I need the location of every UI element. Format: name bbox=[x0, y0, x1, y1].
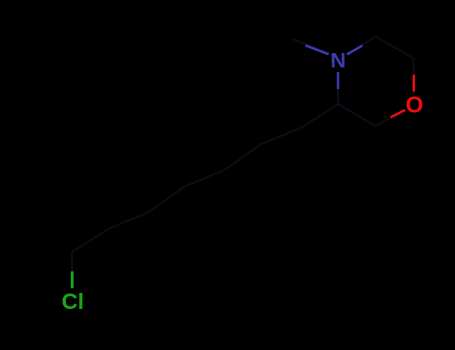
svg-text:N: N bbox=[330, 48, 346, 72]
svg-text:O: O bbox=[405, 91, 423, 117]
svg-text:Cl: Cl bbox=[62, 289, 84, 314]
